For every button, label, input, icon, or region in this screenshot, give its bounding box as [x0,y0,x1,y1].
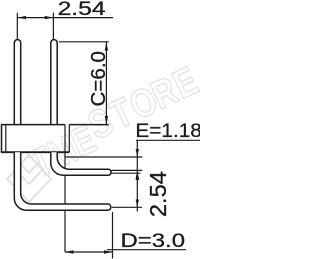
pin 1 upper straight part [14,40,20,125]
E and 2.54 right dimension line [136,140,138,211]
arrow C bottom [105,116,108,125]
svg-text:C=6.0: C=6.0 [87,51,110,107]
svg-text:D=3.0: D=3.0 [121,230,186,252]
body housing [1,125,109,252]
pin 1 bent (upper row) [51,152,111,175]
arrow top-right [45,16,54,19]
body left inner edge [5,125,7,153]
body left edge [1,125,3,153]
D text underline [107,249,186,251]
E underline / leader [136,139,200,141]
arrow D left [65,250,74,253]
watermark text TME STORE [23,57,205,186]
arrows [17,16,139,254]
arrow C top [105,42,108,51]
pin1 tip extension line L3 [111,172,140,174]
seat reference line L1 [65,156,142,158]
pin 2 bent (lower row) [14,152,111,210]
watermark logo rhombus [7,155,51,202]
pin2 tip vertical extension [112,212,114,259]
dim 2.54 top: left extension line [16,13,18,40]
svg-text:2.54: 2.54 [145,171,171,217]
arrow E top [136,149,139,157]
pin 2 upper straight part [51,40,57,125]
svg-text:2.54: 2.54 [58,0,106,20]
C top extension line [59,41,109,43]
pin1 tip extension line L2 [111,169,142,171]
body bottom edge [1,151,70,153]
dim 2.54 top: dimension line [17,17,113,19]
body break line V2 [68,125,70,153]
pin2 tip extension line L4 [112,206,142,208]
arrow E bottom / 2.54 right top [136,171,139,179]
arrow 2.54 right bottom [136,200,139,208]
dim 2.54 top: right extension line [52,13,54,40]
body break line V1 [64,125,66,252]
body top edge [1,124,109,126]
arrow D right [104,250,113,253]
arrow top-left [17,16,26,19]
D dimension line [65,251,113,253]
C dimension line [105,42,107,125]
svg-text:E=1.18: E=1.18 [135,120,200,142]
